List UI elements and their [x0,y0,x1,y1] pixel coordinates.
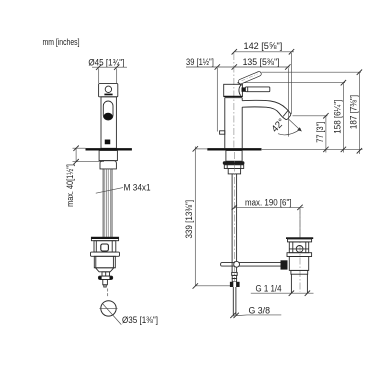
svg-text:max. 40[1½"]: max. 40[1½"] [65,164,75,207]
svg-text:Ø45 [1¾"]: Ø45 [1¾"] [88,57,124,67]
svg-text:G 1 1/4: G 1 1/4 [256,283,282,293]
svg-text:187 [7⅜"]: 187 [7⅜"] [348,95,358,129]
svg-text:mm [inches]: mm [inches] [43,37,80,47]
svg-text:135 [5⅜"]: 135 [5⅜"] [243,57,280,67]
svg-text:G 3/8: G 3/8 [249,306,271,316]
svg-text:142 [5⅝"]: 142 [5⅝"] [244,41,283,51]
svg-text:158 [6¼"]: 158 [6¼"] [332,100,342,134]
svg-text:39 [1½"]: 39 [1½"] [186,57,214,67]
svg-text:339 [13⅜"]: 339 [13⅜"] [184,200,194,239]
svg-text:M 34x1: M 34x1 [124,183,151,193]
svg-text:max. 190 [6"]: max. 190 [6"] [245,198,292,208]
svg-text:Ø35 [1⅜"]: Ø35 [1⅜"] [122,315,158,325]
svg-text:77 [3"]: 77 [3"] [315,122,325,143]
